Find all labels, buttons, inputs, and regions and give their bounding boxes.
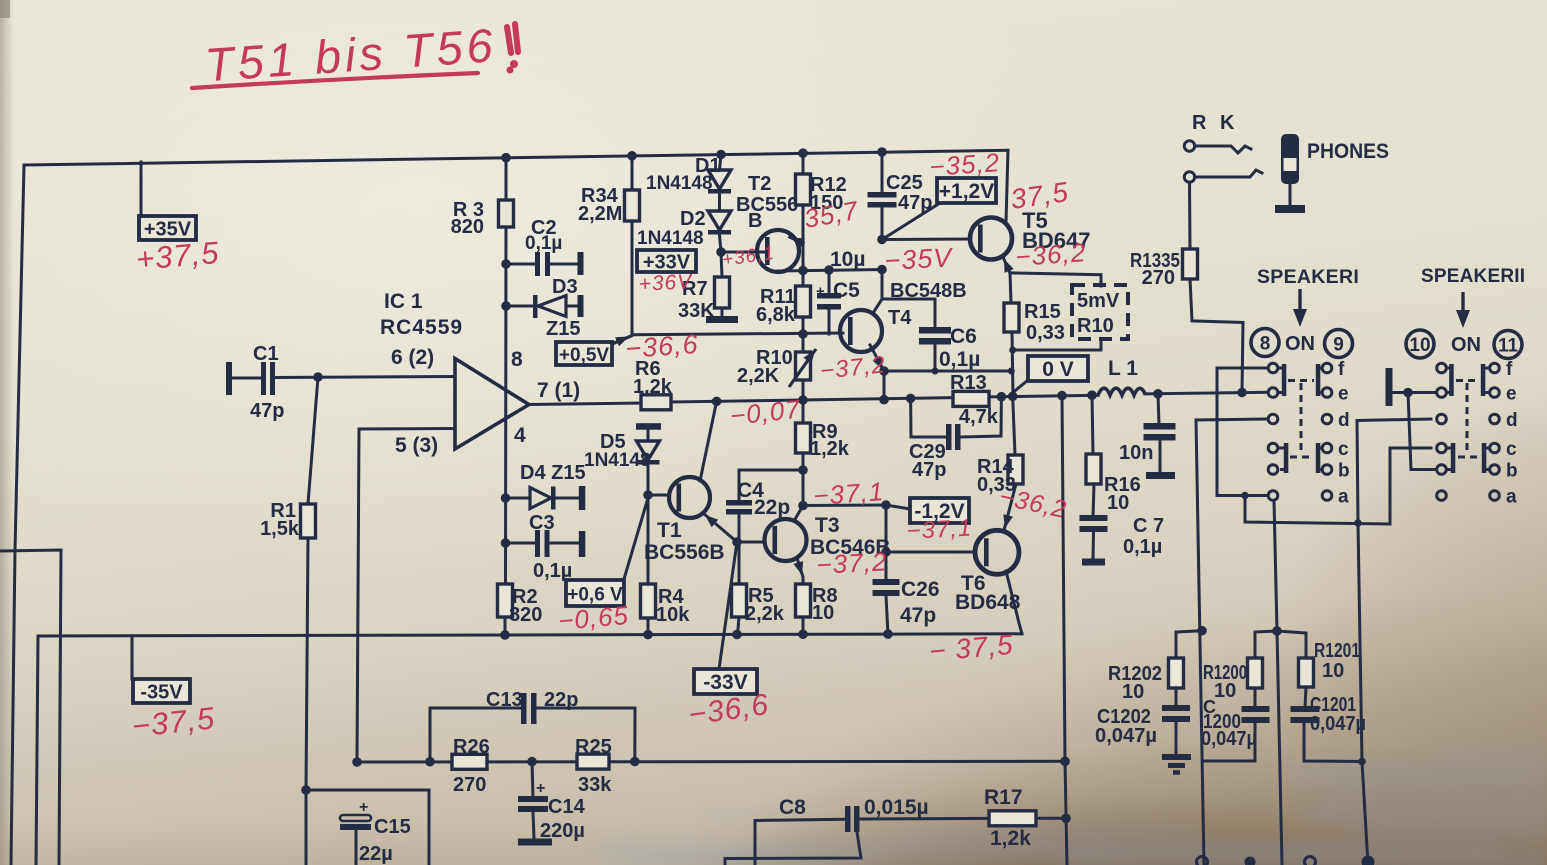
- svg-text:C 7: C 7: [1133, 515, 1164, 537]
- wire op-amp output: [529, 403, 641, 405]
- wire C5 row: [778, 270, 882, 272]
- wire +35V label stub: [140, 162, 143, 216]
- wire jack column down: [1358, 523, 1368, 865]
- arrow T4 emitter: [873, 356, 883, 370]
- wire R1201-C1201 link: [1305, 687, 1306, 708]
- svg-text:0,047µ: 0,047µ: [1310, 713, 1366, 735]
- svg-text:7 (1): 7 (1): [537, 379, 580, 402]
- svg-text:+: +: [816, 283, 825, 300]
- wire to +1,2V box: [882, 203, 940, 240]
- svg-text:1,5k: 1,5k: [260, 518, 300, 540]
- svg-text:11: 11: [1498, 336, 1519, 357]
- svg-text:C14: C14: [548, 796, 586, 818]
- switch arm II upper: [1449, 364, 1454, 396]
- wire pin8/pin4 column: [504, 227, 508, 584]
- wire +0,5V row / T4 base: [632, 333, 843, 335]
- node top rail junction: [627, 151, 637, 161]
- svg-text:22p: 22p: [544, 689, 578, 711]
- wire D1-D2 link: [718, 194, 721, 211]
- node bypass branch: [1241, 492, 1249, 500]
- contact switch-II left c: [1437, 443, 1447, 453]
- svg-text:IC 1: IC 1: [384, 290, 423, 313]
- svg-text:C25: C25: [886, 172, 923, 194]
- svg-text:SPEAKERII: SPEAKERII: [1421, 266, 1525, 287]
- svg-text:BC556: BC556: [736, 194, 798, 216]
- node -35V rail junction: [732, 630, 742, 640]
- node C29 right: [997, 392, 1007, 402]
- svg-text:RC4559: RC4559: [380, 316, 463, 339]
- svg-text:1N4148: 1N4148: [646, 173, 713, 194]
- svg-text:10n: 10n: [1119, 442, 1153, 464]
- wire RK upper switch: [1195, 146, 1251, 153]
- svg-text:0,015µ: 0,015µ: [864, 796, 929, 819]
- svg-text:−35,2: −35,2: [928, 147, 1001, 182]
- svg-text:10µ: 10µ: [830, 248, 865, 271]
- svg-text:e: e: [1338, 384, 1349, 405]
- wire rail drop to T5 collector: [1006, 150, 1008, 222]
- node lower rail junction: [630, 757, 640, 767]
- resistor R1200: [1248, 658, 1263, 688]
- switch arm I link dashed: [1300, 383, 1303, 452]
- wire C2 left lead: [506, 263, 536, 266]
- wire T6 emitter: [1006, 571, 1022, 634]
- capacitor C14: [518, 796, 548, 802]
- wire -37,1 row: [803, 504, 886, 508]
- svg-text:−37,1: −37,1: [906, 515, 973, 545]
- wire C14 top lead: [532, 762, 533, 797]
- resistor R1201: [1299, 658, 1314, 687]
- svg-text:33K: 33K: [678, 300, 715, 322]
- wire left bus down: [36, 636, 38, 865]
- contact switch-I left d: [1268, 414, 1278, 424]
- node T2 base junction: [716, 247, 726, 257]
- svg-text:C8: C8: [779, 796, 806, 819]
- net label +33V box: [637, 250, 696, 272]
- wire RK lower switch: [1195, 170, 1262, 177]
- wire T1 collector: [700, 401, 717, 481]
- wire C1 left lead: [232, 377, 262, 380]
- contact switch-II left f: [1437, 363, 1447, 373]
- svg-text:T1: T1: [657, 519, 682, 542]
- wire C6 bottom lead: [934, 344, 937, 371]
- node T1 base: [643, 490, 653, 500]
- node 10n column: [1153, 389, 1163, 399]
- wire C26 bottom lead: [886, 596, 888, 635]
- node T1 collector tap: [712, 397, 722, 407]
- capacitor C3: [535, 530, 540, 557]
- wire T2 emitter diagonal: [790, 237, 803, 243]
- wire T4 emitter to output row: [883, 371, 886, 400]
- svg-text:ON: ON: [1285, 333, 1315, 355]
- node bottom channel dot 2: [1362, 856, 1375, 865]
- contact switch-II right b: [1490, 465, 1500, 475]
- node T4 emitter junction: [879, 366, 889, 376]
- svg-text:2,2k: 2,2k: [745, 603, 785, 625]
- annotation headline underline: [192, 73, 478, 88]
- svg-text:820: 820: [509, 604, 542, 626]
- svg-text:T2: T2: [748, 173, 771, 195]
- wire pin5 feedback: [357, 429, 455, 763]
- wire T6 collector: [1004, 484, 1016, 530]
- resistor R26: [452, 754, 487, 769]
- capacitor C7: [1080, 515, 1108, 521]
- wire D3 left lead: [506, 305, 533, 308]
- wire jack stem: [1289, 184, 1292, 205]
- svg-text:e: e: [1506, 384, 1517, 405]
- contact switch-II left b: [1437, 465, 1447, 475]
- diode D1 1N4148: [708, 170, 731, 189]
- wire R4 top lead: [647, 495, 650, 584]
- resistor R6: [641, 395, 671, 410]
- wire R8 bottom lead: [802, 617, 805, 635]
- node bottom channel dot: [1245, 857, 1256, 865]
- contact switch-I left b: [1268, 465, 1278, 475]
- svg-text:−36,6: −36,6: [624, 329, 699, 364]
- switch arm II lower: [1451, 443, 1456, 473]
- switch arm II link dashed: [1466, 383, 1469, 452]
- node -35V rail junction: [883, 629, 893, 639]
- arrow T5 emitter: [1004, 259, 1014, 273]
- wire D4 left lead: [506, 497, 530, 500]
- node R1 tap: [313, 372, 323, 382]
- resistor R1202: [1169, 658, 1184, 688]
- wire R17 right lead: [1036, 817, 1066, 820]
- svg-text:+1,2V: +1,2V: [939, 180, 994, 203]
- node top rail junction: [501, 153, 511, 163]
- wire C3 left lead: [506, 542, 536, 545]
- svg-text:c: c: [1506, 439, 1517, 460]
- wire T4-T5 emitter row: [884, 370, 1011, 373]
- contact bottom channel 2: [1305, 857, 1316, 865]
- terminal C3 end bar: [579, 531, 586, 557]
- svg-text:9: 9: [1333, 335, 1344, 356]
- wire C8 row drop: [754, 821, 757, 865]
- wire C1201 to jack column: [1304, 723, 1362, 762]
- resistor R15: [1004, 303, 1019, 332]
- wire R10 bottom lead: [802, 380, 805, 400]
- arrow box pointer: [615, 337, 629, 347]
- svg-text:a: a: [1506, 487, 1517, 508]
- capacitor C6: [919, 327, 951, 334]
- svg-text:0 V: 0 V: [1042, 358, 1074, 381]
- contact switch-I left a: [1268, 491, 1278, 501]
- connector PHONES jack: [1281, 134, 1299, 184]
- wire box pointer: [612, 336, 631, 344]
- wire R1200 stub: [1255, 631, 1277, 658]
- wire C14 bottom lead: [533, 812, 534, 838]
- node T4 emitter column: [879, 395, 889, 405]
- annotation exclamation mark: [507, 24, 518, 53]
- arrow speaker I: [1298, 289, 1301, 311]
- arrow T6 collector: [1003, 514, 1013, 528]
- svg-text:8: 8: [1260, 334, 1271, 355]
- svg-text:10: 10: [1409, 335, 1430, 356]
- capacitor C2: [535, 252, 540, 276]
- wire T2 base lead: [721, 251, 764, 254]
- svg-text:R17: R17: [984, 786, 1023, 809]
- svg-text:47p: 47p: [900, 604, 936, 627]
- wire D2 bottom lead: [720, 235, 722, 252]
- svg-text:8: 8: [511, 348, 523, 371]
- svg-text:C5: C5: [833, 279, 860, 302]
- wire C13 loop left: [430, 708, 521, 762]
- node main drop column: [1057, 391, 1067, 401]
- svg-text:R15: R15: [1024, 301, 1061, 323]
- diode D3 Z15: [533, 295, 538, 318]
- wire R34 bottom to +0,5V row: [631, 221, 634, 335]
- terminal D5 top bar: [636, 423, 661, 430]
- arrow T3 emitter: [794, 561, 804, 575]
- wire +35V top rail: [24, 150, 1008, 165]
- capacitor C5: [817, 293, 841, 299]
- wire node to +0,6V box: [624, 498, 648, 579]
- wire lower-left link: [306, 790, 429, 865]
- wire R12 bottom / T2 emitter column: [802, 205, 805, 271]
- svg-text:b: b: [1506, 461, 1518, 482]
- contact switch-II left a: [1437, 491, 1447, 501]
- resistor R5: [732, 584, 747, 617]
- wire R1335 to speaker row: [1190, 279, 1243, 393]
- svg-text:0,1µ: 0,1µ: [525, 233, 562, 254]
- wire C5 bottom lead: [828, 309, 831, 334]
- resistor R14: [1008, 455, 1023, 484]
- capacitor 10n: [1144, 423, 1176, 430]
- contact RK lower: [1184, 172, 1194, 182]
- arrow R10 adjust: [789, 349, 816, 387]
- wire R1200-C1200 link: [1254, 688, 1257, 708]
- net label +0,5V box: [556, 342, 612, 365]
- wire switch-I f-a bypass: [1217, 368, 1268, 496]
- capacitor C25: [868, 192, 897, 198]
- wire C8 left lead: [755, 819, 845, 820]
- transistor T6 BD648: [975, 530, 1019, 574]
- svg-text:R10: R10: [1077, 315, 1114, 337]
- capacitor C1201: [1291, 706, 1320, 712]
- wire to -33V box: [719, 542, 737, 669]
- svg-text:B: B: [748, 210, 762, 232]
- resistor R7: [715, 277, 730, 308]
- resistor R2: [498, 584, 513, 617]
- terminal 11 circled: [1494, 331, 1522, 359]
- wire -1,2V box stub: [886, 505, 910, 509]
- terminal C14 end bar: [518, 839, 552, 846]
- wire -35V bottom rail: [38, 634, 1022, 636]
- svg-text:270: 270: [1142, 267, 1175, 289]
- svg-text:1,2k: 1,2k: [990, 827, 1031, 850]
- wire left border bus: [11, 165, 24, 865]
- terminal 10 circled: [1406, 330, 1434, 358]
- svg-text:C26: C26: [901, 578, 940, 601]
- wire R1 bottom / bus: [306, 538, 308, 865]
- resistor R12: [796, 174, 811, 205]
- resistor R17: [989, 811, 1036, 826]
- transistor T5 BD647: [970, 218, 1012, 260]
- svg-text:1,2k: 1,2k: [633, 376, 673, 398]
- net label -1,2V box: [910, 498, 969, 523]
- terminal C7 end bar: [1082, 559, 1105, 566]
- wire R7 top lead: [721, 252, 722, 277]
- contact switch-I right e: [1322, 388, 1332, 398]
- node R1202 tap: [1197, 626, 1207, 636]
- svg-text:C6: C6: [950, 325, 977, 348]
- wire R15 top lead: [1010, 273, 1011, 303]
- wire switch-I d down: [1196, 419, 1268, 865]
- svg-text:d: d: [1506, 410, 1518, 431]
- svg-text:d: d: [1338, 410, 1350, 431]
- wire R4 bottom lead: [647, 618, 650, 635]
- node C2 tap: [501, 259, 511, 269]
- svg-text:−36,2: −36,2: [1014, 237, 1087, 272]
- terminal R7 end bar: [706, 316, 738, 323]
- wire C3 right lead: [550, 542, 579, 545]
- wire R15 bottom lead: [1012, 332, 1013, 396]
- node R14 top / 0V: [1008, 392, 1018, 402]
- wire T6 base lead: [886, 551, 973, 554]
- wire C5 top lead: [828, 270, 831, 294]
- node lower rail junction: [425, 757, 435, 767]
- wire 5mV sense bottom: [1015, 339, 1101, 350]
- node top rail junction: [716, 150, 726, 160]
- contact switch-II right f: [1490, 363, 1500, 373]
- contact bottom channel 1: [1197, 857, 1208, 865]
- contact switch-I right f: [1322, 363, 1332, 373]
- svg-text:47p: 47p: [898, 192, 932, 214]
- contact switch-I right a: [1322, 491, 1332, 501]
- arrow speaker II: [1461, 292, 1464, 312]
- wire R11 top lead: [802, 271, 805, 287]
- svg-text:1,2k: 1,2k: [810, 438, 850, 460]
- wire bypass to switch-II c: [1245, 448, 1431, 524]
- svg-text:2,2K: 2,2K: [737, 365, 780, 387]
- svg-text:0,047µ: 0,047µ: [1201, 728, 1257, 750]
- net label +0,6V box: [566, 580, 624, 606]
- terminal jack base bar: [1275, 205, 1305, 213]
- svg-text:D2: D2: [680, 208, 706, 230]
- wire R14 top lead: [1013, 396, 1015, 455]
- net label 0V box: [1028, 356, 1088, 381]
- node R10/R9 junction: [798, 395, 808, 405]
- inductor L1: [1098, 388, 1145, 395]
- contact switch-II left e: [1437, 388, 1447, 398]
- node T6 base row: [881, 547, 891, 557]
- node riser junction: [1354, 519, 1362, 527]
- node top rail junction: [877, 147, 887, 157]
- svg-text:R13: R13: [950, 372, 987, 394]
- wire output row to speaker I: [1145, 392, 1268, 394]
- resistor R11: [796, 286, 811, 317]
- svg-text:b: b: [1338, 461, 1350, 482]
- svg-text:R25: R25: [575, 736, 612, 758]
- wire R7 bottom lead: [721, 308, 724, 317]
- net label +35V box: [139, 216, 196, 240]
- node C5 top: [824, 265, 834, 275]
- wire T1 emitter: [703, 513, 737, 542]
- svg-text:0,33: 0,33: [1026, 322, 1065, 344]
- svg-text:22µ: 22µ: [359, 843, 393, 865]
- wire T3 collector: [794, 506, 803, 522]
- node R17 main column: [1061, 814, 1071, 824]
- svg-text:BC556B: BC556B: [644, 541, 725, 564]
- resistor R8: [796, 584, 811, 617]
- node C4 branch: [798, 465, 808, 475]
- wire R34 top lead: [631, 156, 634, 190]
- node R16 column: [1087, 390, 1097, 400]
- svg-text:10: 10: [1107, 492, 1129, 514]
- node T5 base junction: [877, 235, 887, 245]
- node -1,2V junction: [881, 500, 891, 510]
- svg-text:T4: T4: [888, 307, 912, 329]
- svg-text:C15: C15: [374, 816, 411, 838]
- svg-text:−37,2: −37,2: [816, 546, 888, 580]
- resistor R25: [577, 754, 609, 769]
- wire T1 base lead: [648, 494, 666, 497]
- wire C1200 to d-column: [1203, 723, 1256, 761]
- svg-text:C13: C13: [486, 689, 523, 711]
- node R11 top: [798, 266, 808, 276]
- net label -35V box: [133, 679, 190, 703]
- svg-text:10: 10: [1322, 660, 1344, 682]
- svg-text:820: 820: [451, 216, 484, 238]
- svg-text:R1201: R1201: [1314, 640, 1360, 662]
- wire R1 top: [308, 377, 318, 504]
- wire switch-II b link: [1408, 393, 1436, 470]
- svg-text:2,2M: 2,2M: [578, 203, 622, 225]
- svg-text:BD648: BD648: [955, 591, 1021, 614]
- wire C2 right lead: [550, 263, 578, 266]
- svg-text:D3: D3: [552, 276, 578, 298]
- node -37,1 row: [798, 501, 808, 511]
- svg-text:f: f: [1506, 359, 1513, 380]
- wire C13 loop right: [537, 708, 636, 762]
- wire R2 bottom lead: [504, 617, 507, 635]
- svg-text:22p: 22p: [754, 496, 790, 519]
- wire -35V label stub: [131, 636, 134, 679]
- node D3 tap: [501, 301, 511, 311]
- node switch-II feed: [1403, 388, 1413, 398]
- capacitor C26: [873, 579, 900, 585]
- node C29 left: [906, 394, 916, 404]
- wire 0V box stub: [1013, 380, 1028, 393]
- wire C15 bottom lead: [355, 830, 358, 865]
- annotation headline T51 bis T56: [203, 18, 498, 91]
- wire R9 top lead: [802, 400, 805, 423]
- diode D2 1N4148: [708, 211, 731, 230]
- node -35V rail junction: [798, 629, 808, 639]
- switch arm I upper: [1282, 364, 1287, 396]
- wire D5 bottom lead: [647, 464, 650, 495]
- capacitor C1200: [1242, 706, 1270, 712]
- wire C25 bottom lead: [881, 207, 884, 240]
- node -35V rail junction: [500, 630, 510, 640]
- wire riser to switch-II d: [1357, 421, 1358, 524]
- capacitor C1202: [1162, 705, 1190, 711]
- node top rail junction: [798, 148, 808, 158]
- contact RK upper: [1184, 141, 1194, 151]
- wire R1202-C1202 link: [1175, 688, 1178, 707]
- wire switch-II e feed: [1392, 391, 1436, 394]
- svg-text:C3: C3: [529, 512, 555, 534]
- contact switch-II right a: [1490, 491, 1500, 501]
- potentiometer R10: [796, 352, 811, 380]
- svg-text:33k: 33k: [578, 774, 612, 796]
- capacitor C13: [521, 693, 527, 724]
- svg-text:0,047µ: 0,047µ: [1095, 725, 1157, 747]
- svg-text:D4 Z15: D4 Z15: [520, 462, 586, 484]
- wire R9 bottom: [802, 453, 805, 506]
- terminal 9 circled: [1325, 330, 1353, 358]
- svg-text:220µ: 220µ: [540, 820, 585, 842]
- wire T4 emitter: [870, 345, 884, 371]
